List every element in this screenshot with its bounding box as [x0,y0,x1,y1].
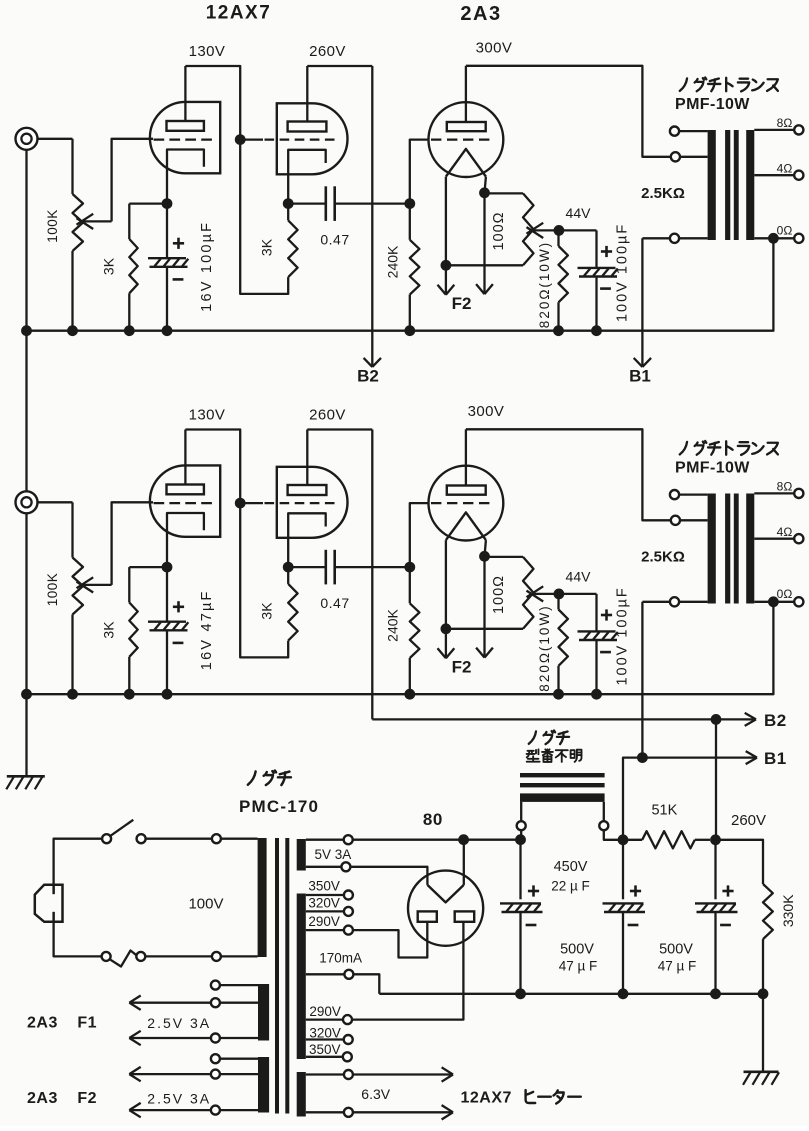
wire cap to grid node ch2 [335,566,410,568]
5V terminal 2 [306,866,342,868]
power transformer core [275,838,279,1114]
secondary winding 5V [297,839,306,871]
wire to right ground [762,994,764,1072]
svg-text:12AX7: 12AX7 [461,1090,512,1107]
capacitor 500V 47uF second [714,840,716,900]
12AX7 heater arrow bottom [353,1111,452,1113]
ground symbol right [744,1071,779,1074]
junction dots ground bus ch2 [21,689,32,700]
svg-text:2.5V 3A: 2.5V 3A [147,1091,211,1107]
resistor 330K bleeder [716,840,764,884]
HV tap 350V lower unused [306,1056,343,1058]
svg-text:22 µ F: 22 µ F [551,879,590,894]
F2 terminal unused [220,1058,258,1060]
hum pot wiper arrow ch2 [534,593,559,595]
node OPT 0ohm ch1 [768,233,779,244]
2A3 plate ch1 [447,122,486,131]
B1 drop line ch2 to rail [641,602,643,758]
svg-text:12AX7: 12AX7 [206,3,272,24]
wire pot top lead ch1 [71,139,73,194]
pot wiper arrow ch2 [84,584,112,586]
OPT secondary 0ohm ch1 [754,237,794,239]
svg-text:44V: 44V [566,205,592,221]
wire OPT T3 to B1 ch2 [642,601,670,603]
F2 terminal b [220,1109,258,1111]
B2 drop line ch2 to rail [371,430,373,720]
OPT secondary 8ohm ch1 [754,129,794,131]
node T1 cathode ch2 [162,562,173,573]
wire plug top to switch [54,839,102,894]
capacitor 0.47 coupling ch2 [324,550,327,585]
svg-text:100K: 100K [45,209,60,243]
wire 290V to rectifier left plate [353,922,427,958]
resistor 820ohm 10W ch1 [557,230,559,246]
node T1 plate / T2 grid ch1 [235,134,246,145]
AC plug [35,885,63,922]
triode 12AX7-b plate ch2 [288,485,327,495]
svg-text:3K: 3K [101,621,117,639]
wire node down to 3K return ch2 [240,503,288,657]
node filament right ch2 [479,551,490,562]
capacitor 16V cathode bypass ch1 [166,204,168,259]
node 260V [710,834,721,845]
wire OPT T3 to B1 ch1 [642,237,670,239]
triode 12AX7-a envelope ch2 [150,465,220,536]
junction dots PSU ground bus [515,988,526,999]
wire jack to volume pot ch1 [38,138,73,140]
F2 arrow right ch1 [483,193,485,293]
svg-text:260V: 260V [309,407,346,424]
svg-text:80: 80 [423,810,443,829]
svg-text:5V 3A: 5V 3A [315,847,352,862]
F2 arrow a [131,1073,211,1075]
resistor 240K grid leak ch1 [409,204,411,240]
secondary winding HV [297,894,306,1060]
triode 12AX7-b cathode ch1 [288,150,326,204]
OPT primary terminal 3 B+ ch1 [679,237,708,239]
triode 12AX7-a grid dashes ch1 [154,138,213,140]
wire filament left lead ch1 [445,177,447,266]
wire wiper to grid T1 ch2 [112,502,153,585]
svg-text:100V: 100V [188,896,223,913]
svg-text:240K: 240K [385,608,401,641]
label Noguchi trans ch2 [680,442,687,455]
resistor 3K second stage ch2 [288,584,297,641]
rectifier 80 left plate [418,911,437,921]
wire 170mA to PSU ground bus [353,974,379,994]
svg-text:0.47: 0.47 [320,232,349,248]
rectifier 80 envelope [408,871,483,946]
wire 300V plate feed ch2 [466,429,671,520]
potentiometer 100K ch2 [73,558,84,615]
OPT primary terminal 1 ch2 [679,493,708,495]
svg-text:260V: 260V [731,812,766,829]
2A3 filament ch1 [446,149,486,177]
potentiometer 100K ch1 [73,194,84,251]
OPT primary terminal 1 ch1 [679,130,708,132]
svg-text:100Ω: 100Ω [491,575,507,614]
svg-text:47 µ F: 47 µ F [559,959,598,974]
node filament right ch1 [479,187,490,198]
B2 drop line ch1 [371,66,373,354]
wire switch to primary [146,838,212,840]
svg-text:0.47: 0.47 [320,595,349,611]
OPT primary terminal 3 B+ ch2 [679,601,708,603]
svg-text:450V: 450V [554,859,588,875]
wire hum pot bottom ch1 [446,264,523,266]
label Noguchi PSU [248,771,256,784]
output transformer windings ch2 [708,494,716,604]
12AX7 heater arrow top [353,1073,452,1075]
secondary winding 6.3V [297,1072,306,1117]
svg-text:8Ω: 8Ω [777,480,793,494]
svg-text:240K: 240K [385,245,401,278]
node choke input [515,834,526,845]
hum balance pot 100ohm ch2 [523,557,534,629]
triode 12AX7-b envelope ch2 [277,467,348,538]
wire 300V plate feed ch1 [466,66,671,157]
resistor 3K second stage ch1 [288,220,297,277]
wire wiper to grid T1 ch1 [112,139,153,222]
node 330K ground [758,988,769,999]
wire node to T2 grid ch1 [240,138,263,140]
HV center tap 170mA [306,973,345,975]
filament winding F1 [258,984,269,1041]
rectifier 80 filament [427,885,463,903]
triode 12AX7-b grid dashes ch2 [265,502,335,504]
primary terminal top [212,834,221,843]
triode 12AX7-a envelope ch1 [150,102,220,173]
svg-text:260V: 260V [309,43,346,60]
wire cap to grid node ch1 [335,202,410,204]
svg-text:100V 100µF: 100V 100µF [615,223,631,322]
svg-text:PMF-10W: PMF-10W [675,96,750,113]
svg-text:4Ω: 4Ω [777,525,793,539]
wire filament right to node [463,840,465,885]
wire filament to hum pot ch1 [485,192,524,194]
svg-text:4Ω: 4Ω [777,161,793,175]
wire grid riser ch1 [410,140,430,204]
wire node down to 3K return ch1 [240,140,288,294]
svg-text:51K: 51K [651,803,677,819]
node rectifier filament right [458,834,469,845]
HV tap 320V upper [306,910,344,912]
F2 arrow left ch2 [445,629,447,657]
input jack ch1 [16,128,38,150]
B2 rail [372,718,746,720]
choke label model unknown [527,749,540,761]
F1 terminal unused [220,984,258,986]
svg-text:F2: F2 [452,658,472,677]
OPT secondary 4ohm ch1 [754,174,794,176]
OPT primary terminal 2 plate ch2 [680,519,708,521]
resistor 3K first stage ch1 [128,204,130,239]
B1 rail [623,758,748,840]
OPT secondary 0ohm ch2 [754,601,794,603]
2A3 grid dashes ch2 [431,502,490,504]
2A3 grid dashes ch1 [431,138,490,140]
OPT secondary 8ohm ch2 [754,492,794,494]
input jack ch2 [16,491,38,513]
2A3 filament ch2 [446,512,486,540]
F2 arrow b [131,1109,211,1111]
capacitor 16V cathode bypass ch2 [166,567,168,622]
svg-text:B1: B1 [764,749,787,768]
svg-text:6.3V: 6.3V [361,1086,390,1102]
svg-text:8Ω: 8Ω [777,116,793,130]
svg-text:F1: F1 [77,1014,97,1031]
power tube 2A3 envelope ch1 [429,102,504,177]
6.3V tap bottom [306,1111,344,1113]
capacitor 100V 100uF ch2 [595,594,597,632]
wire filament left lead ch2 [445,540,447,629]
wire 44V to cap ch2 [559,593,597,595]
choke label Noguchi [529,731,536,743]
wire lower 290V to rectifier right plate [352,922,463,1020]
svg-text:B2: B2 [764,711,787,730]
ground bus ch2 [27,602,774,694]
power switch bottom pole [102,952,111,961]
wire cathode to 3K ch2 [129,566,167,568]
triode 12AX7-b envelope ch1 [277,103,348,174]
node T2 cathode ch2 [283,562,294,573]
capacitor 0.47 coupling ch1 [324,186,327,221]
svg-text:2.5V 3A: 2.5V 3A [147,1015,211,1031]
node filament left ch1 [441,260,452,271]
svg-text:16V 100µF: 16V 100µF [199,221,215,312]
wire 5V to rectifier node [353,839,521,841]
svg-text:820Ω(10W): 820Ω(10W) [537,604,552,691]
svg-text:320V: 320V [308,895,340,910]
svg-text:0Ω: 0Ω [777,587,793,601]
choke terminal right [603,802,605,821]
svg-text:PMF-10W: PMF-10W [675,460,750,477]
wire cathode to coupling cap ch1 [288,202,326,204]
5V terminal 1 [306,839,344,841]
wire 130V plate feed ch1 [185,66,240,140]
OPT primary terminal 2 plate ch1 [680,156,708,158]
node 2A3 grid ch2 [404,562,415,573]
svg-text:350V: 350V [309,1042,341,1057]
svg-text:500V: 500V [560,942,594,958]
svg-text:0Ω: 0Ω [777,224,793,238]
F2 arrow right ch2 [483,556,485,656]
svg-text:500V: 500V [659,942,693,958]
pot wiper arrow ch1 [84,220,112,222]
triode 12AX7-b plate ch1 [288,122,327,132]
HV tap 320V lower unused [306,1038,344,1040]
wire cathode to 3K ch1 [129,202,167,204]
svg-text:2A3: 2A3 [27,1014,58,1031]
svg-text:2.5KΩ: 2.5KΩ [641,549,685,566]
svg-text:B1: B1 [629,367,651,386]
wire 44V to cap ch1 [559,229,597,231]
svg-text:F2: F2 [77,1090,97,1107]
svg-text:290V: 290V [309,1004,341,1019]
wire jack to volume pot ch2 [38,501,73,503]
hum balance pot 100ohm ch1 [523,193,534,265]
node OPT 0ohm ch2 [768,596,779,607]
wire B2 node to 260V node [715,719,717,839]
rectifier 80 right plate [455,911,475,921]
power switch top pole [102,834,111,843]
svg-text:350V: 350V [308,879,340,894]
triode 12AX7-b cathode ch2 [288,513,326,567]
svg-text:47 µ F: 47 µ F [658,959,697,974]
triode 12AX7-a cathode ch1 [167,150,204,204]
svg-text:130V: 130V [189,43,226,60]
B1 drop line ch1 [641,238,643,354]
wire filament right lead ch1 [485,177,486,193]
svg-text:3K: 3K [101,257,117,275]
svg-text:330K: 330K [780,894,796,927]
choke windings [520,773,605,777]
svg-text:3K: 3K [259,238,275,256]
wire hum pot bottom ch2 [446,628,523,630]
capacitor 450V 22uF [519,840,521,900]
ground symbol left [7,775,45,778]
svg-text:820Ω(10W): 820Ω(10W) [537,241,552,328]
svg-text:100V 100µF: 100V 100µF [615,586,631,685]
F1 arrow b [131,1037,211,1039]
HV tap 290V lower [306,1018,343,1020]
wire filament to hum pot ch2 [485,556,524,558]
wire node to T2 grid ch2 [240,502,263,504]
output transformer windings ch1 [708,130,716,240]
wire 260V plate feed ch1 [307,65,372,67]
wire grid riser ch2 [410,503,430,567]
node B1 rail junction [637,752,648,763]
primary terminal bottom [212,952,221,961]
F2 terminal a [220,1073,258,1075]
resistor 3K first stage ch2 [128,567,130,602]
svg-text:320V: 320V [309,1026,341,1041]
node 44V ch2 [554,589,565,600]
triode 12AX7-a cathode ch2 [167,513,204,567]
node T2 cathode ch1 [283,198,294,209]
capacitor 500V 47uF first [622,840,624,900]
wire pot top lead ch2 [71,502,73,557]
junction dots ground bus ch1 [21,325,32,336]
node filament left ch2 [441,623,452,634]
node T1 cathode ch1 [162,198,173,209]
2A3 plate ch2 [447,486,486,495]
wire 130V plate feed ch2 [185,430,240,504]
node 44V ch1 [554,225,565,236]
svg-text:16V 47µF: 16V 47µF [199,589,215,670]
wire plug bottom to switch [54,912,102,957]
svg-text:2A3: 2A3 [27,1090,58,1107]
power tube 2A3 envelope ch2 [429,466,504,541]
hum pot wiper arrow ch1 [534,229,559,231]
HV tap 290V upper [306,929,344,931]
6.3V tap top [306,1073,344,1075]
svg-text:2.5KΩ: 2.5KΩ [641,185,685,202]
svg-text:300V: 300V [476,40,513,57]
power transformer primary winding [258,838,267,957]
svg-text:100K: 100K [45,573,60,607]
svg-text:290V: 290V [308,914,340,929]
HV tap 350V upper [306,894,344,896]
svg-text:PMC-170: PMC-170 [239,797,319,816]
svg-text:300V: 300V [468,403,505,420]
F2 arrow left ch1 [445,265,447,293]
node T1 plate / T2 grid ch2 [235,498,246,509]
wire bottom switch to primary [145,955,212,957]
choke terminal left [520,802,522,821]
resistor 240K grid leak ch2 [409,567,411,603]
svg-text:130V: 130V [189,407,226,424]
wire cathode to coupling cap ch2 [288,566,326,568]
wire filament left to 5V [350,867,427,885]
triode 12AX7-b grid dashes ch1 [265,138,335,140]
node 2A3 grid ch1 [404,198,415,209]
node B2 rail to PSU [711,714,722,725]
svg-text:B2: B2 [357,367,379,386]
OPT secondary 4ohm ch2 [754,538,794,540]
filament winding F2 [258,1057,269,1113]
label Noguchi trans ch1 [680,78,687,91]
svg-text:2A3: 2A3 [460,3,501,25]
node 51K left / B1 [618,834,629,845]
left ground line jack sleeve run [25,149,27,694]
F1 terminal b [220,1037,258,1039]
F1 arrow a [131,1002,211,1004]
capacitor 100V 100uF ch1 [595,230,597,268]
wire filament right lead ch2 [485,540,486,556]
F1 terminal a [220,1002,258,1004]
svg-text:170mA: 170mA [319,951,362,966]
resistor 51K [623,839,642,841]
svg-text:44V: 44V [566,569,592,585]
triode 12AX7-a plate ch1 [167,121,204,131]
ground bus ch1 [27,238,774,330]
PSU ground bus [379,993,763,995]
wire 260V plate feed ch2 [307,428,372,430]
resistor 820ohm 10W ch2 [557,594,559,610]
svg-text:3K: 3K [259,602,275,620]
triode 12AX7-a plate ch2 [167,485,204,495]
svg-text:F2: F2 [452,294,472,313]
triode 12AX7-a grid dashes ch2 [154,502,213,504]
svg-text:100Ω: 100Ω [491,211,507,250]
